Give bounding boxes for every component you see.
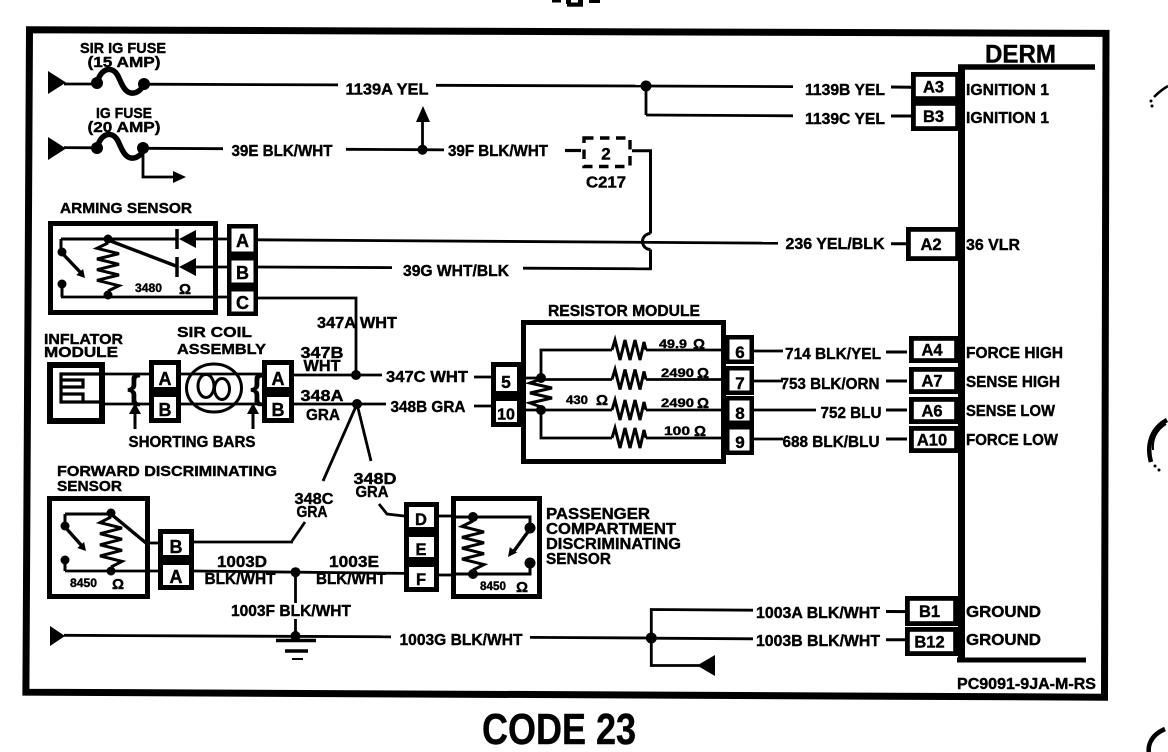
svg-text:347A WHT: 347A WHT	[317, 315, 398, 332]
svg-text:348B GRA: 348B GRA	[391, 399, 466, 416]
svg-text:1003A BLK/WHT: 1003A BLK/WHT	[756, 605, 881, 622]
svg-text:(20 AMP): (20 AMP)	[88, 119, 161, 136]
svg-text:Ω: Ω	[697, 365, 709, 382]
svg-text:GROUND: GROUND	[966, 604, 1041, 621]
svg-text:A: A	[159, 369, 172, 389]
svg-text:9: 9	[735, 433, 744, 452]
svg-text:A3: A3	[923, 79, 944, 97]
svg-text:Ω: Ω	[516, 579, 528, 596]
svg-text:1003B BLK/WHT: 1003B BLK/WHT	[756, 633, 881, 650]
svg-text:B: B	[159, 400, 172, 420]
svg-text:BLK/WHT: BLK/WHT	[316, 571, 387, 588]
svg-text:CODE 23: CODE 23	[482, 705, 636, 752]
svg-text:A6: A6	[921, 403, 942, 421]
svg-text:(15 AMP): (15 AMP)	[88, 54, 161, 71]
svg-text:A4: A4	[921, 342, 943, 360]
svg-text:BLK/WHT: BLK/WHT	[205, 571, 277, 588]
svg-text:752 BLU: 752 BLU	[821, 405, 882, 422]
svg-text:A: A	[170, 567, 183, 587]
svg-text:1003F BLK/WHT: 1003F BLK/WHT	[231, 603, 352, 620]
svg-text:348A: 348A	[301, 388, 344, 405]
svg-text:10: 10	[497, 407, 515, 424]
svg-text:GRA: GRA	[356, 484, 389, 501]
svg-text:Ω: Ω	[697, 395, 709, 412]
svg-text:1139C YEL: 1139C YEL	[805, 111, 885, 128]
svg-text:688 BLK/BLU: 688 BLK/BLU	[783, 434, 880, 451]
svg-text:FORCE HIGH: FORCE HIGH	[966, 345, 1063, 362]
svg-text:C217: C217	[586, 175, 626, 192]
svg-text:2490: 2490	[661, 366, 694, 380]
svg-text:D: D	[415, 511, 427, 529]
svg-text:SENSOR: SENSOR	[57, 478, 122, 495]
svg-text:714 BLK/YEL: 714 BLK/YEL	[785, 346, 881, 363]
svg-text:{: {	[127, 369, 140, 407]
svg-text:F: F	[416, 571, 426, 589]
svg-text:A2: A2	[920, 236, 941, 254]
svg-text:1003E: 1003E	[329, 554, 379, 571]
svg-text:SHORTING BARS: SHORTING BARS	[129, 434, 256, 451]
svg-text:Ω: Ω	[693, 336, 705, 353]
svg-text:B: B	[236, 263, 249, 283]
svg-text:PC9091-9JA-M-RS: PC9091-9JA-M-RS	[957, 676, 1096, 693]
svg-text:SIR COIL: SIR COIL	[177, 324, 252, 341]
svg-text:7: 7	[735, 374, 744, 393]
svg-text:8450: 8450	[480, 579, 506, 593]
svg-text:5: 5	[501, 372, 511, 392]
svg-text:C: C	[236, 293, 249, 313]
svg-text:MODULE: MODULE	[44, 344, 118, 361]
svg-text:ARMING SENSOR: ARMING SENSOR	[60, 200, 192, 217]
svg-text:Ω: Ω	[596, 392, 608, 409]
svg-text:1139A YEL: 1139A YEL	[346, 82, 429, 99]
svg-text:1139B YEL: 1139B YEL	[805, 82, 885, 99]
svg-text:IGNITION 1: IGNITION 1	[966, 82, 1049, 99]
svg-text:E: E	[415, 541, 426, 559]
svg-text:A: A	[236, 231, 249, 251]
svg-text:GRA: GRA	[306, 407, 340, 424]
svg-text:Ω: Ω	[112, 576, 124, 593]
svg-text:8: 8	[735, 404, 744, 423]
svg-text:GRA: GRA	[297, 504, 328, 521]
svg-text:753 BLK/ORN: 753 BLK/ORN	[781, 376, 880, 393]
svg-text:6: 6	[735, 343, 744, 362]
svg-text:B3: B3	[923, 108, 944, 126]
svg-text:8450: 8450	[70, 576, 97, 590]
svg-text:RESISTOR MODULE: RESISTOR MODULE	[548, 303, 700, 320]
svg-text:236 YEL/BLK: 236 YEL/BLK	[786, 236, 886, 253]
svg-text:WHT: WHT	[304, 358, 342, 375]
svg-text:GROUND: GROUND	[966, 632, 1041, 649]
svg-text:347C WHT: 347C WHT	[386, 369, 469, 386]
svg-text:ASSEMBLY: ASSEMBLY	[177, 341, 266, 358]
svg-text:39F BLK/WHT: 39F BLK/WHT	[448, 143, 549, 160]
svg-text:430: 430	[566, 393, 588, 407]
svg-text:36 VLR: 36 VLR	[966, 237, 1020, 254]
svg-text:49.9: 49.9	[659, 337, 687, 351]
svg-text:SENSE LOW: SENSE LOW	[966, 403, 1055, 420]
svg-text:{: {	[250, 369, 263, 407]
svg-text:B1: B1	[919, 603, 940, 621]
svg-text:2490: 2490	[661, 396, 694, 410]
svg-text:Ω: Ω	[179, 281, 191, 298]
svg-text:B: B	[170, 537, 183, 557]
svg-text:39G WHT/BLK: 39G WHT/BLK	[403, 263, 510, 280]
svg-text:SENSE HIGH: SENSE HIGH	[966, 374, 1060, 391]
svg-text:A10: A10	[917, 432, 947, 450]
svg-text:IGNITION 1: IGNITION 1	[966, 110, 1049, 127]
svg-text:2: 2	[601, 145, 610, 164]
svg-text:A: A	[272, 369, 285, 389]
svg-text:3480: 3480	[135, 281, 162, 295]
svg-text:B: B	[272, 400, 285, 420]
svg-text:B12: B12	[914, 634, 944, 652]
svg-text:FORCE LOW: FORCE LOW	[966, 432, 1058, 449]
svg-text:1003D: 1003D	[217, 554, 267, 571]
svg-text:Ω: Ω	[694, 423, 706, 440]
svg-text:39E BLK/WHT: 39E BLK/WHT	[232, 143, 334, 160]
svg-text:SENSOR: SENSOR	[546, 551, 611, 568]
svg-text:A7: A7	[921, 373, 942, 391]
svg-text:1003G BLK/WHT: 1003G BLK/WHT	[400, 632, 524, 649]
svg-text:100: 100	[664, 424, 690, 438]
